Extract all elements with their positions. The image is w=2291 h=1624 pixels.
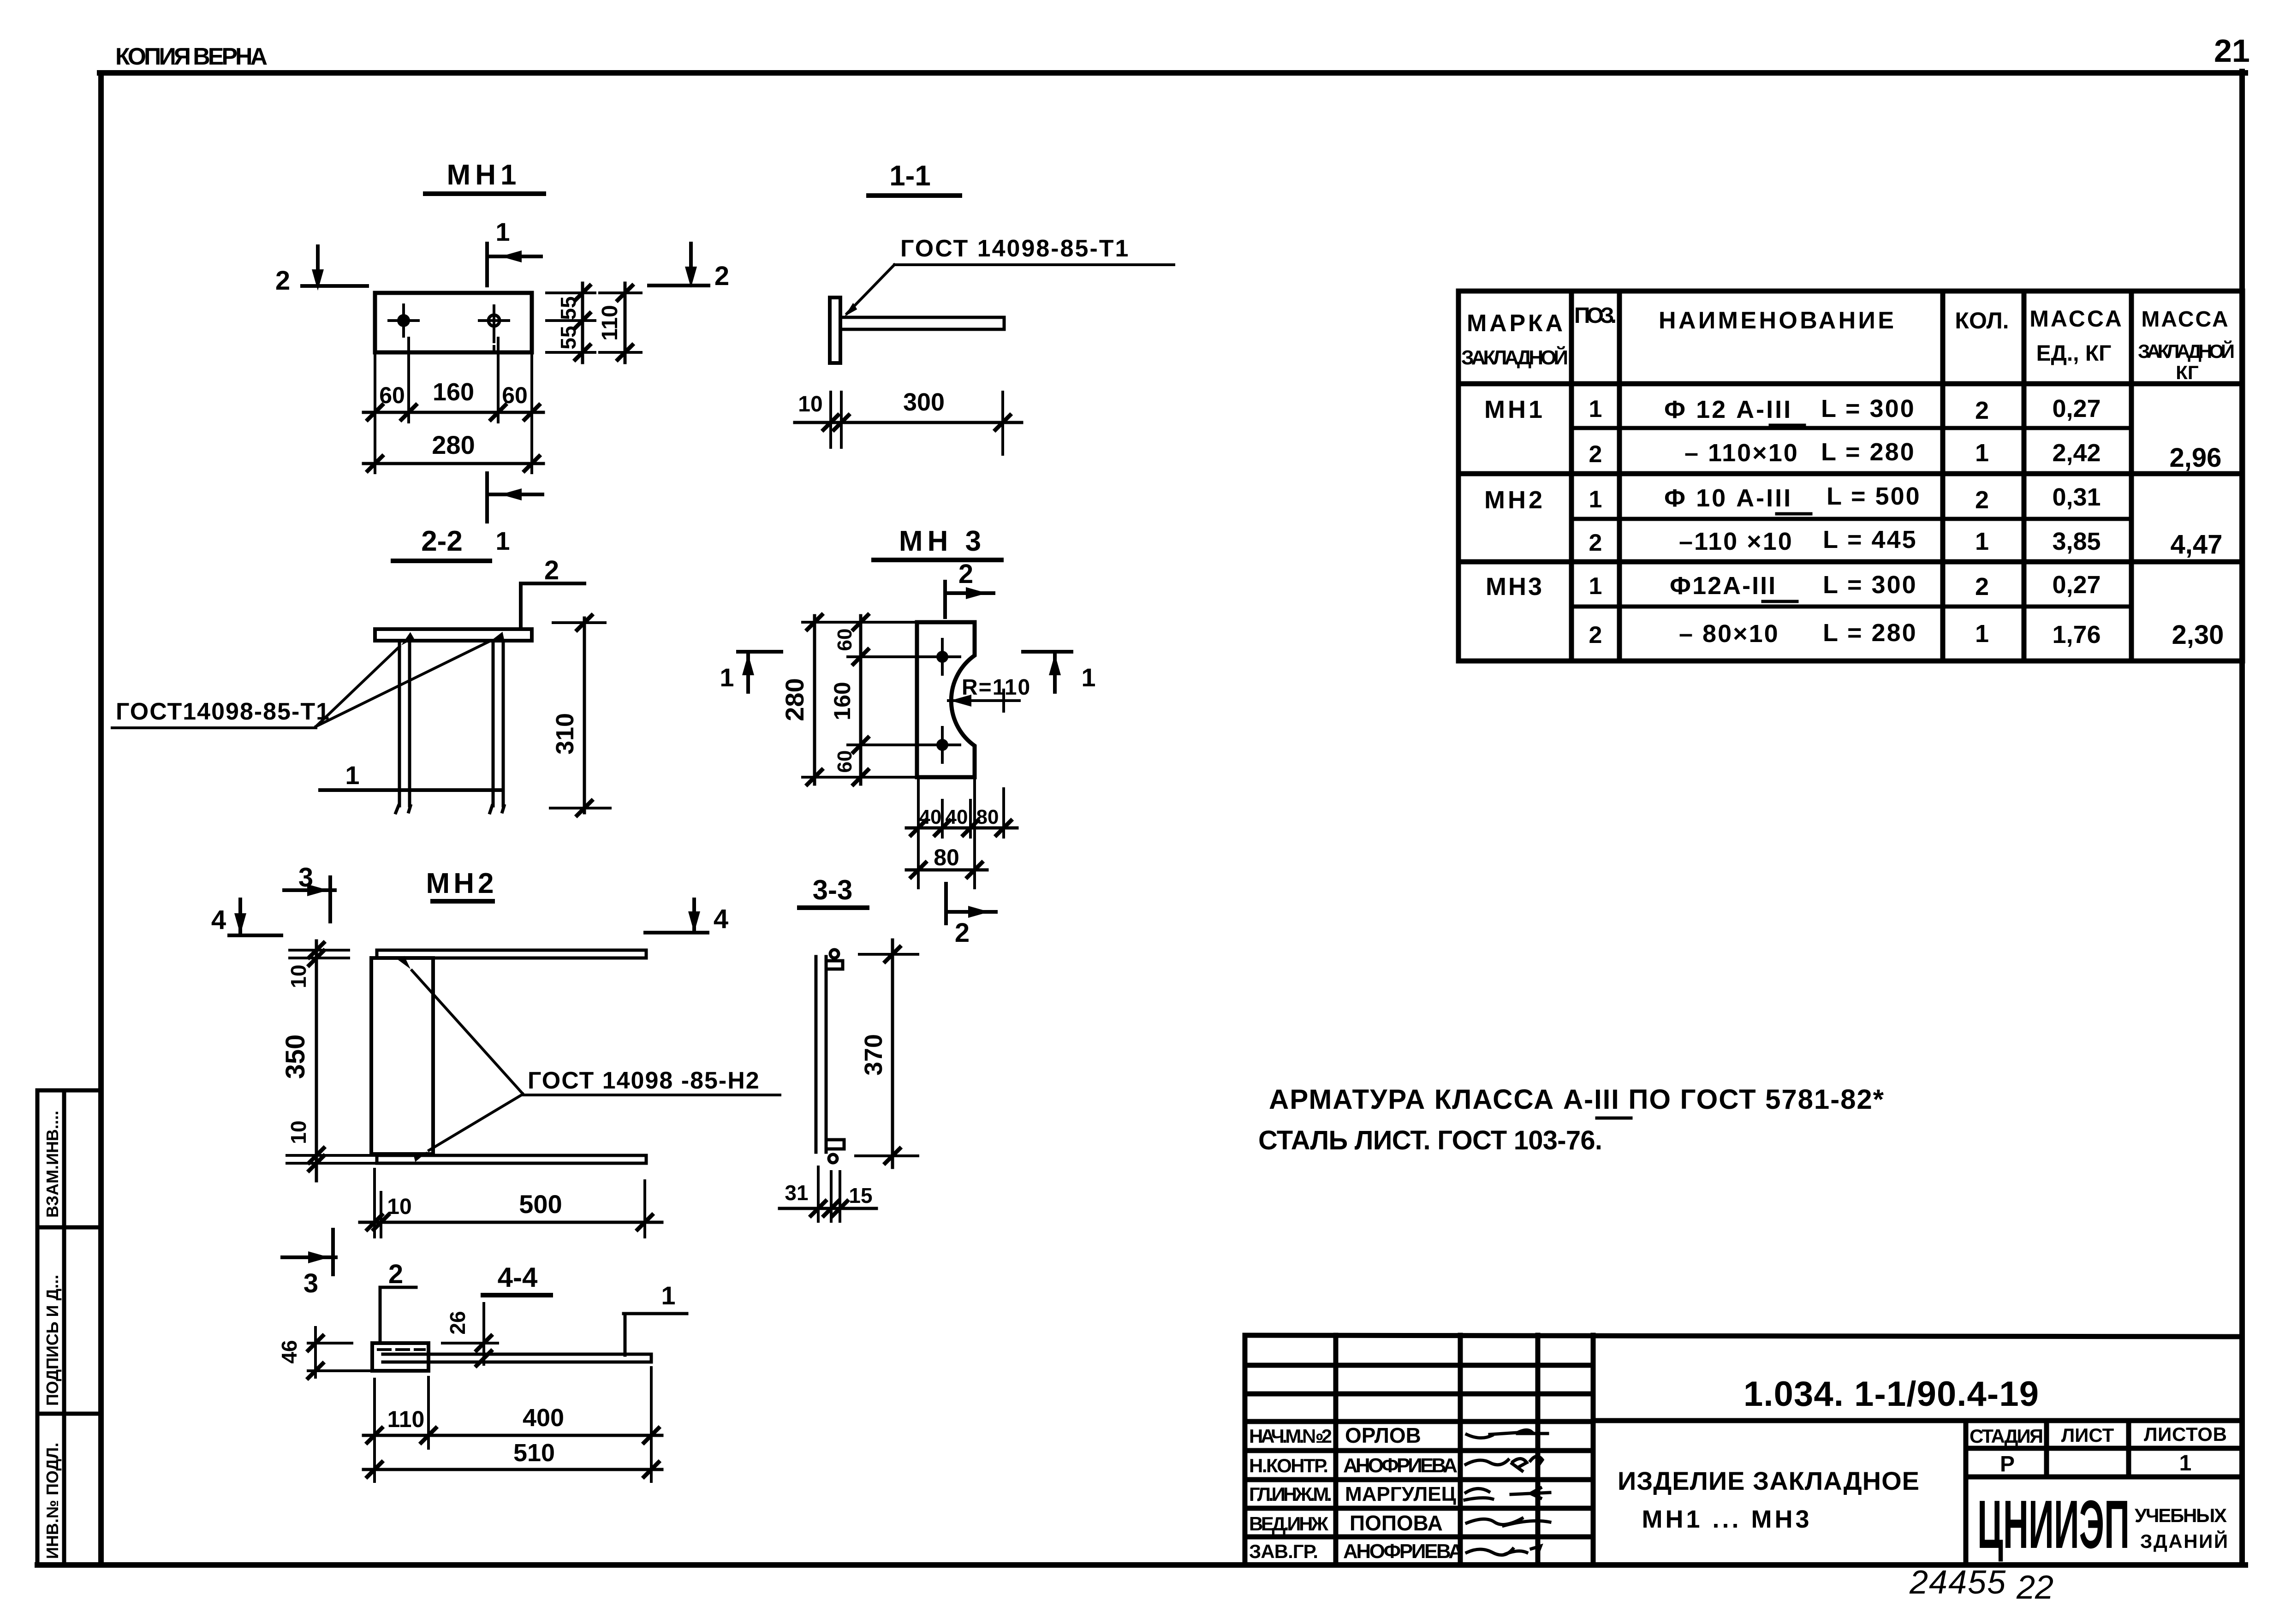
svg-text:60: 60 [502, 382, 528, 408]
section mark 3 (bottom) [282, 1230, 336, 1274]
svg-text:110: 110 [387, 1406, 425, 1432]
svg-text:ПОПОВА: ПОПОВА [1350, 1511, 1443, 1535]
dim 370 [856, 954, 918, 1156]
svg-text:2: 2 [388, 1259, 403, 1289]
svg-text:L = 280: L = 280 [1821, 438, 1916, 466]
svg-text:Ф12А-III: Ф12А-III [1670, 572, 1777, 600]
hole bottom [936, 739, 948, 751]
svg-text:1-1: 1-1 [889, 160, 931, 192]
bottom dims 40/40/80 and 80 [918, 779, 1004, 888]
svg-text:ИЗДЕЛИЕ ЗАКЛАДНОЕ: ИЗДЕЛИЕ ЗАКЛАДНОЕ [1618, 1466, 1923, 1495]
right dim 110 [600, 293, 641, 352]
svg-text:110: 110 [598, 305, 622, 340]
svg-text:МН2: МН2 [426, 868, 498, 899]
svg-text:60: 60 [833, 750, 856, 773]
svg-text:ГОСТ14098-85-Т1: ГОСТ14098-85-Т1 [116, 698, 330, 725]
svg-text:– 110×10: – 110×10 [1684, 439, 1799, 467]
svg-text:500: 500 [519, 1190, 562, 1219]
svg-text:Ф 12 А-III: Ф 12 А-III [1664, 396, 1792, 423]
plate pos.2 МН2 [371, 958, 433, 1154]
anchor rod top pos.1 [377, 950, 646, 958]
svg-text:1.034. 1-1/90.4-19: 1.034. 1-1/90.4-19 [1744, 1374, 2039, 1414]
svg-text:УЧЕБНЫХ: УЧЕБНЫХ [2135, 1505, 2227, 1526]
svg-text:ИНВ.№ ПОДЛ.: ИНВ.№ ПОДЛ. [43, 1443, 62, 1559]
section mark 1 (top) [487, 244, 541, 286]
svg-text:280: 280 [780, 678, 809, 721]
rod pos.1 [383, 1354, 651, 1362]
svg-text:3-3: 3-3 [813, 874, 853, 905]
svg-text:2: 2 [1975, 573, 1989, 601]
svg-text:ЗАКЛАДНОЙ: ЗАКЛАДНОЙ [2138, 340, 2235, 362]
dim 310 [550, 623, 610, 808]
left margin stamp table [37, 1090, 101, 1565]
plate (pos.2) МН1 [375, 293, 532, 352]
svg-text:КОЛ.: КОЛ. [1955, 308, 2009, 333]
svg-text:МН1: МН1 [447, 159, 521, 191]
section mark 1 (bottom) [487, 473, 542, 522]
svg-text:ПОДПИСЬ И Д...: ПОДПИСЬ И Д... [43, 1275, 62, 1406]
svg-text:АРМАТУРА КЛАССА А-III ПО ГО: АРМАТУРА КЛАССА А-III ПО ГОСТ 5781-82* [1269, 1084, 1885, 1115]
svg-text:1: 1 [2179, 1451, 2192, 1475]
svg-text:10: 10 [387, 1195, 411, 1219]
svg-text:1: 1 [495, 217, 510, 246]
svg-text:400: 400 [523, 1404, 564, 1432]
svg-text:80: 80 [934, 845, 959, 870]
hole top [936, 651, 948, 663]
svg-text:2: 2 [1975, 397, 1989, 424]
svg-text:АНОФРИЕВА: АНОФРИЕВА [1343, 1540, 1463, 1563]
svg-text:1: 1 [1975, 528, 1989, 555]
svg-text:31: 31 [785, 1181, 808, 1205]
svg-text:310: 310 [551, 713, 579, 755]
svg-text:1,76: 1,76 [2052, 621, 2101, 648]
svg-text:L = 280: L = 280 [1823, 619, 1917, 647]
svg-text:80: 80 [976, 806, 999, 828]
svg-text:ЗАВ.ГР.: ЗАВ.ГР. [1249, 1541, 1318, 1562]
svg-text:24455: 24455 [1909, 1564, 2006, 1601]
svg-text:4-4: 4-4 [498, 1262, 538, 1293]
svg-text:2,42: 2,42 [2052, 439, 2101, 467]
svg-text:1: 1 [1975, 439, 1989, 467]
svg-text:ПОЗ.: ПОЗ. [1574, 303, 1617, 328]
svg-text:ВЕД.ИНЖ: ВЕД.ИНЖ [1249, 1513, 1329, 1535]
section mark 2 (bottom) [946, 884, 996, 923]
svg-text:2: 2 [958, 559, 973, 589]
svg-text:R=110: R=110 [962, 675, 1031, 700]
svg-text:АНОФРИЕВА: АНОФРИЕВА [1343, 1454, 1458, 1477]
svg-text:Н.КОНТР.: Н.КОНТР. [1249, 1455, 1328, 1476]
bottom dims 60/160/60 and 280 [375, 338, 532, 473]
svg-text:350: 350 [280, 1035, 310, 1079]
right dim 55/55 [547, 293, 595, 352]
plate МН3 with R110 notch [917, 622, 975, 777]
svg-text:МН1 ... МН3: МН1 ... МН3 [1642, 1505, 1812, 1533]
svg-text:2: 2 [1975, 486, 1989, 514]
anchor rod pos.1 [840, 317, 1004, 329]
svg-text:ЕД., КГ: ЕД., КГ [2036, 341, 2112, 366]
svg-text:46: 46 [277, 1340, 301, 1363]
bottom dims 110/400 and 510 [375, 1368, 651, 1481]
svg-text:60: 60 [833, 629, 856, 651]
svg-text:МАРКА: МАРКА [1467, 310, 1563, 337]
svg-text:НАЧ.М.№2: НАЧ.М.№2 [1249, 1425, 1332, 1447]
svg-text:2,96: 2,96 [2170, 443, 2222, 473]
svg-text:370: 370 [860, 1034, 887, 1076]
plate МН2 edge with bent rods [816, 957, 844, 1152]
svg-text:0,27: 0,27 [2052, 571, 2101, 599]
svg-text:160: 160 [433, 378, 474, 406]
svg-text:2: 2 [714, 261, 729, 291]
svg-text:10: 10 [798, 392, 822, 416]
svg-text:МАССА: МАССА [2141, 307, 2229, 332]
svg-text:1: 1 [1589, 573, 1602, 600]
svg-text:ЦНИИЭП: ЦНИИЭП [1977, 1487, 2130, 1563]
svg-text:300: 300 [903, 388, 945, 416]
plate edge view [830, 297, 840, 363]
svg-text:L = 300: L = 300 [1823, 571, 1917, 599]
svg-text:1: 1 [1589, 486, 1602, 513]
signatures [1465, 1430, 1550, 1555]
svg-text:ГЛ.ИНЖ.М.: ГЛ.ИНЖ.М. [1249, 1483, 1332, 1505]
svg-text:0,27: 0,27 [2052, 395, 2101, 422]
svg-text:40: 40 [946, 806, 968, 828]
svg-text:26: 26 [446, 1311, 470, 1334]
svg-text:55: 55 [556, 326, 580, 349]
svg-text:Ф 10 А-III: Ф 10 А-III [1664, 484, 1792, 512]
svg-text:1: 1 [345, 761, 359, 790]
svg-text:0,31: 0,31 [2052, 483, 2101, 511]
svg-text:МАССА: МАССА [2029, 306, 2124, 332]
svg-text:МН1: МН1 [1484, 396, 1545, 423]
svg-text:1: 1 [720, 663, 734, 692]
svg-text:1: 1 [1589, 396, 1602, 422]
svg-text:МАРГУЛЕЦ: МАРГУЛЕЦ [1345, 1483, 1456, 1505]
svg-text:Р: Р [2000, 1452, 2015, 1476]
svg-text:2: 2 [955, 918, 970, 948]
svg-text:15: 15 [849, 1184, 872, 1208]
svg-text:2-2: 2-2 [421, 525, 463, 557]
plate МН1 in section [375, 629, 532, 641]
svg-text:21: 21 [2214, 33, 2250, 69]
svg-text:4: 4 [714, 904, 728, 934]
svg-text:МН 3: МН 3 [899, 525, 986, 557]
svg-text:МН3: МН3 [1486, 573, 1544, 601]
svg-text:4: 4 [211, 905, 226, 935]
hole / rod pos.1 right [488, 315, 500, 326]
svg-text:L = 500: L = 500 [1827, 482, 1921, 510]
svg-text:40: 40 [919, 806, 942, 828]
section mark 1 (right) [1023, 652, 1071, 692]
svg-text:L = 445: L = 445 [1823, 526, 1917, 553]
svg-text:ЛИСТ: ЛИСТ [2061, 1424, 2114, 1446]
svg-text:3: 3 [303, 1268, 318, 1298]
svg-text:КОПИЯ ВЕРНА: КОПИЯ ВЕРНА [115, 43, 268, 70]
plate end view [372, 1343, 428, 1371]
svg-text:СТАДИЯ: СТАДИЯ [1970, 1425, 2043, 1447]
bottom dims 10/500 [375, 1169, 645, 1237]
svg-text:1: 1 [1975, 620, 1989, 648]
bottom dims 31 / 15 [818, 1167, 840, 1221]
svg-text:60: 60 [379, 382, 405, 408]
svg-text:2: 2 [544, 555, 559, 585]
svg-text:1: 1 [661, 1281, 675, 1310]
svg-text:МН2: МН2 [1484, 486, 1545, 514]
svg-text:160: 160 [829, 682, 855, 720]
svg-text:–110 ×10: –110 ×10 [1679, 528, 1793, 555]
svg-text:10: 10 [286, 964, 310, 988]
svg-text:ЛИСТОВ: ЛИСТОВ [2144, 1423, 2227, 1445]
anchor rod left [396, 641, 411, 813]
svg-text:1: 1 [1081, 663, 1095, 692]
svg-text:ЗАКЛАДНОЙ: ЗАКЛАДНОЙ [1461, 345, 1568, 369]
svg-text:280: 280 [432, 430, 475, 459]
svg-text:10: 10 [286, 1120, 310, 1144]
svg-text:КГ: КГ [2176, 362, 2198, 383]
left dims 10/350/10 [287, 950, 374, 1163]
svg-text:55: 55 [556, 296, 580, 320]
svg-text:22: 22 [2016, 1569, 2053, 1606]
left dims 280 and 60/160/60 [803, 622, 922, 777]
svg-text:L = 300: L = 300 [1821, 395, 1916, 422]
svg-text:2: 2 [275, 266, 290, 296]
svg-text:СТАЛЬ ЛИСТ. ГОСТ 103-76.: СТАЛЬ ЛИСТ. ГОСТ 103-76. [1258, 1125, 1603, 1155]
svg-text:ЗДАНИЙ: ЗДАНИЙ [2140, 1530, 2228, 1552]
anchor rod right [490, 641, 504, 813]
svg-text:2,30: 2,30 [2172, 620, 2224, 650]
svg-text:2: 2 [1589, 441, 1602, 468]
svg-text:4,47: 4,47 [2171, 529, 2223, 559]
hole / rod pos.1 left [397, 314, 410, 327]
svg-text:ГОСТ 14098 -85-Н2: ГОСТ 14098 -85-Н2 [528, 1067, 760, 1094]
svg-text:ГОСТ 14098-85-Т1: ГОСТ 14098-85-Т1 [900, 235, 1130, 262]
svg-text:510: 510 [513, 1439, 555, 1467]
dim 10 / 300 [831, 392, 1003, 454]
svg-text:2: 2 [1589, 622, 1602, 648]
svg-text:ВЗАМ.ИНВ....: ВЗАМ.ИНВ.... [43, 1111, 62, 1218]
section mark 2 (right) [649, 244, 708, 286]
svg-text:1: 1 [495, 526, 510, 555]
anchor rod bottom pos.1 [377, 1155, 646, 1163]
svg-text:3,85: 3,85 [2052, 528, 2101, 555]
svg-text:НАИМЕНОВАНИЕ: НАИМЕНОВАНИЕ [1659, 307, 1898, 334]
svg-text:– 80×10: – 80×10 [1679, 620, 1779, 648]
svg-text:ОРЛОВ: ОРЛОВ [1345, 1423, 1421, 1447]
svg-text:2: 2 [1589, 529, 1602, 556]
